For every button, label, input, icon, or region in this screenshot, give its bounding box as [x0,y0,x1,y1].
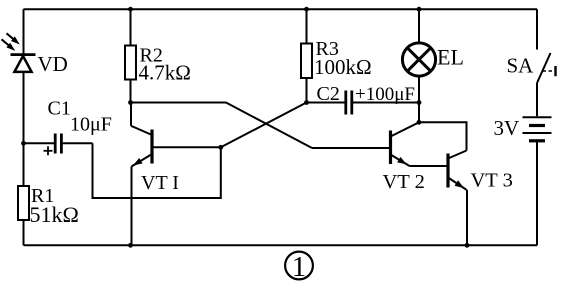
resistor R1 [18,186,29,220]
node R2 bottom [128,100,133,105]
node R3 top [304,7,309,12]
capacitor C1 [44,134,62,156]
switch SA [537,53,556,83]
transistor VT2 [391,122,420,166]
wire top rail [24,8,538,10]
svg-text:EL: EL [437,45,464,70]
wire EL bottom lead [418,76,420,102]
svg-text:4.7kΩ: 4.7kΩ [139,61,191,85]
resistor R3 [301,44,312,79]
battery 3V [523,117,552,141]
wire C2 left lead [307,102,345,104]
node R2 top [128,7,133,12]
wire right rail to switch [536,9,538,49]
svg-text:1: 1 [292,251,307,283]
light arrow 1 [7,33,20,44]
wire EL top lead [418,9,420,43]
lamp EL [402,43,435,76]
wire R3 bottom lead [306,78,308,103]
wire left rail middle [23,72,25,186]
node C1 junction [21,141,26,146]
wire C1 right lead [63,142,93,144]
node VT1 base junction [218,145,223,150]
transistor VT3 [448,151,467,190]
svg-text:10μF: 10μF [70,114,112,136]
resistor R2 [125,46,136,80]
node C2 right [417,100,422,105]
wire R3 top lead [306,9,308,43]
svg-text:VT I: VT I [141,172,179,194]
svg-text:C2: C2 [317,83,340,105]
wire VT1 emitter to bottom rail [131,167,133,246]
svg-text:C1: C1 [48,98,71,120]
wire cross-couple B diagonal [226,103,312,149]
node VT1 emitter bottom [128,243,133,248]
photodiode VD [11,55,36,72]
figure number 1 [285,251,313,283]
svg-text:VD: VD [38,52,68,76]
wire C1 to VT1 base U-path [93,143,221,198]
wire VT2 emitter to VT3 base [410,165,448,167]
svg-text:51kΩ: 51kΩ [30,202,79,227]
svg-text:VT 2: VT 2 [383,171,425,193]
node VT3 emitter bottom [465,243,470,248]
svg-text:VT 3: VT 3 [471,170,513,192]
node VT2 collector [417,120,422,125]
wire C2 node to VT2 collector node [418,103,420,123]
wire R2 bottom lead [130,80,132,103]
svg-text:SA: SA [507,54,535,78]
capacitor C2 [346,91,352,115]
wire VT3 emitter to bottom rail [466,190,468,246]
wire C1 left lead [24,142,55,144]
node EL top [417,7,422,12]
wire left rail lower [23,220,25,245]
svg-text:100kΩ: 100kΩ [314,55,372,79]
wire cross-couple B to VT2 base [312,147,389,149]
wire cross-couple A diagonal to R3 node [221,103,307,148]
svg-text:3V: 3V [494,116,520,140]
wire right rail lower [536,141,538,245]
wire C2 right lead [353,102,419,104]
transistor VT1 [131,103,221,167]
wire cross-couple B horizontal from R2 node [131,102,227,104]
wire R2 top lead [130,9,132,45]
wire left rail upper [23,9,25,54]
wire bottom rail [24,244,538,246]
wire VT2 collector to VT3 collector [419,122,467,150]
wire switch to battery [536,83,538,116]
light arrow 2 [2,39,16,51]
node R3 bottom [304,100,309,105]
